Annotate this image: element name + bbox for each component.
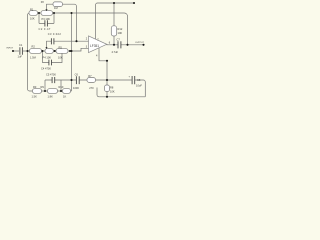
svg-text:1uF: 1uF — [18, 54, 23, 58]
resistor R9 bottom — [48, 89, 58, 94]
svg-text:P3 10K: P3 10K — [42, 17, 51, 21]
svg-text:C5 4700: C5 4700 — [46, 73, 56, 77]
wire ground rail y97 — [97, 88, 145, 97]
wire input to C1 — [13, 50, 19, 52]
svg-text:C6: C6 — [75, 72, 79, 76]
op-amp U1 LF351 — [89, 36, 107, 53]
resistor R5 chain — [56, 49, 68, 54]
wire C5/C6 branch y81 — [45, 80, 107, 91]
svg-text:R10: R10 — [59, 85, 64, 89]
node rail after P3 — [53, 12, 55, 14]
svg-text:10K: 10K — [110, 89, 115, 93]
node A after C1 — [26, 50, 28, 52]
wire pin4 vertical to ground — [106, 61, 108, 97]
svg-text:10K: 10K — [58, 55, 63, 59]
resistor R7 branch — [87, 78, 96, 83]
capacitor C7 plates — [118, 41, 121, 48]
resistor R8 vertical bottom-right — [105, 85, 110, 92]
svg-text:R8: R8 — [110, 86, 114, 90]
wiper arrow P4 — [45, 47, 47, 49]
svg-text:1.5M: 1.5M — [30, 55, 36, 59]
svg-text:270: 270 — [89, 86, 94, 90]
node chain after R2 — [41, 50, 43, 52]
wire C3 branch y41 — [47, 41, 89, 49]
capacitor C8 plates — [132, 76, 135, 84]
wire R4 vertical — [113, 3, 115, 26]
wire pin4 jog — [99, 48, 107, 61]
svg-text:P2: P2 — [41, 0, 45, 4]
node rail after R1 — [38, 12, 40, 14]
capacitor C4 plates — [49, 60, 52, 66]
wire P2 bridge top — [47, 4, 54, 11]
wire C4 branch — [43, 51, 63, 63]
node bottom rail 1 — [44, 90, 46, 92]
wiper arrow P3 — [45, 9, 47, 11]
wire supply y3 — [96, 3, 135, 13]
wire C8 branch — [107, 80, 145, 97]
wire output y45 — [107, 44, 144, 46]
capacitor C5 plates — [52, 77, 55, 83]
svg-text:R2: R2 — [32, 45, 36, 49]
resistor R2 chain — [30, 49, 42, 54]
resistor R1 (P1) top-left — [29, 11, 38, 16]
svg-text:C2 0.47: C2 0.47 — [39, 27, 51, 31]
svg-text:R9: R9 — [41, 85, 45, 89]
wire vertical x71.5 — [71, 13, 73, 91]
node supply end — [133, 2, 135, 4]
svg-text:R3: R3 — [33, 85, 37, 89]
wire chain y51 — [42, 50, 71, 52]
resistor R10 bottom — [63, 89, 71, 94]
node rail at x71 — [70, 12, 72, 14]
potentiometer P3 — [41, 11, 53, 16]
capacitor C2 plates — [45, 20, 48, 26]
svg-text:C8: C8 — [137, 78, 141, 82]
svg-text:R12: R12 — [118, 27, 123, 31]
svg-text:1M: 1M — [54, 6, 58, 10]
node output after opamp — [113, 44, 115, 46]
resistor R3 bottom — [33, 89, 42, 94]
wire pin3 jog — [70, 48, 89, 51]
potentiometer P2 top bridge — [53, 2, 63, 7]
wire pin7 — [95, 13, 97, 40]
node branch pin4 — [106, 79, 108, 81]
svg-text:10K: 10K — [118, 31, 123, 35]
svg-text:1.5K: 1.5K — [32, 94, 38, 98]
svg-text:P4 10K: P4 10K — [43, 55, 52, 59]
svg-text:10uF: 10uF — [136, 83, 142, 87]
wire top rail y13 — [28, 13, 30, 51]
node chain x71 — [70, 50, 72, 52]
node pin4 jog — [106, 60, 108, 62]
resistor R4 vertical right — [111, 26, 116, 36]
svg-text:1.8K: 1.8K — [48, 94, 54, 98]
node output terminal — [142, 44, 144, 46]
svg-text:C4 4700: C4 4700 — [41, 67, 51, 71]
node input — [12, 50, 14, 52]
capacitor C1 — [20, 47, 23, 55]
svg-text:R1: R1 — [30, 7, 34, 11]
node ground rail — [106, 96, 108, 98]
svg-text:1000: 1000 — [73, 86, 79, 90]
svg-text:1K: 1K — [63, 94, 66, 98]
svg-text:C3 0.022: C3 0.022 — [48, 32, 62, 36]
node bottom rail 2 — [60, 90, 62, 92]
wire bottom rail y91 — [28, 51, 72, 91]
svg-text:R7: R7 — [88, 74, 92, 78]
svg-text:C7: C7 — [117, 38, 121, 42]
wire C2 loop under P3 — [39, 13, 54, 23]
capacitor C3 plates — [51, 38, 54, 44]
node supply at R4 top — [113, 2, 115, 4]
potentiometer P4 chain — [45, 49, 53, 54]
capacitor C6 plates — [76, 76, 79, 84]
svg-text:OUTPUT: OUTPUT — [135, 42, 145, 44]
node branch x71 — [70, 79, 72, 81]
node pin2 feedback — [75, 40, 77, 42]
svg-text:INPUT: INPUT — [7, 47, 14, 49]
node chain after R5 — [69, 50, 71, 52]
node output after C7 — [126, 44, 128, 46]
svg-text:10K: 10K — [30, 16, 35, 20]
svg-text:LF351: LF351 — [90, 44, 99, 48]
node chain after P4 — [54, 50, 56, 52]
svg-text:C1: C1 — [19, 43, 23, 47]
svg-text:4.7uF: 4.7uF — [112, 50, 119, 54]
svg-text:R5: R5 — [59, 45, 63, 49]
wire C1 to node — [23, 50, 30, 52]
